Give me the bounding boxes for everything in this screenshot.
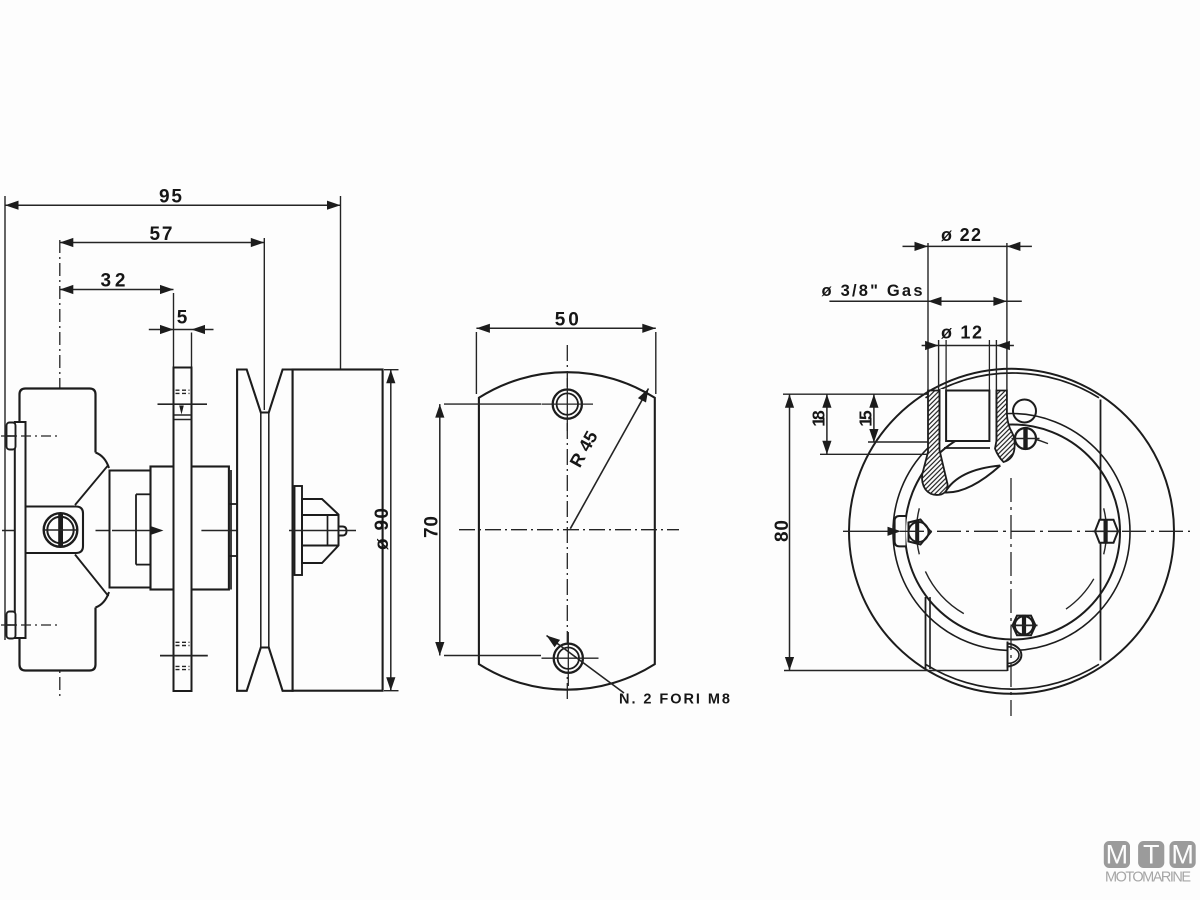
bearing housing right ring [230,470,232,590]
cover screw tick [44,529,77,531]
dimension 95 extension line right [340,196,342,531]
cone silhouette lower [75,555,109,597]
dimension line 70 [439,404,441,655]
svg-text:M: M [1106,840,1129,870]
dimension line 57 [60,242,264,244]
svg-text:MOTOMARINE: MOTOMARINE [1105,870,1191,886]
flange break marks bottom2 [176,665,190,667]
port right wall [995,391,1015,463]
bolt circle segment bottom-right [1066,579,1094,609]
cone silhouette upper [75,465,109,505]
dimension line diameter 22 [903,245,1032,247]
flange crossing line bottom [160,655,208,657]
hole bottom crosshair [542,657,599,659]
centerline dash [176,530,182,532]
logo square 1 [1104,841,1130,868]
svg-text:57: 57 [150,224,173,245]
seal housing step [135,494,137,564]
svg-text:M: M [1171,840,1194,870]
plate top arc [926,373,1100,398]
body boss circle [893,414,1130,651]
cover screw slot [58,514,63,547]
svg-text:5: 5 [177,308,188,329]
svg-text:T: T [1143,840,1160,870]
cover screw bottom [1013,616,1036,636]
cover circle [905,425,1120,640]
mounting flange edge view [174,368,192,692]
dimension line 32 [60,289,174,291]
svg-text:18: 18 [808,410,828,427]
svg-text:95: 95 [159,187,182,208]
bearing housing cylinder [151,467,229,590]
back plate [15,422,26,638]
drain boss [1008,644,1022,667]
svg-text:ø 12: ø 12 [941,323,982,343]
right view horizontal centerline [843,530,897,532]
cover screw top [1015,428,1036,449]
screw boss [20,507,83,554]
logo square 3 [1170,841,1196,868]
flange break marks bottom1 [176,641,190,643]
port bore white [941,389,996,441]
extension line 15 [868,441,928,443]
bolt circle segment bottom-left [925,571,963,613]
cover screw left [909,520,931,545]
inlet passage lens [945,466,1000,493]
dimension 32-5 extension line [173,293,175,368]
dimension line diameter 90 [390,370,392,691]
mounting plate front view [479,372,655,689]
dimension 90 extension lines [384,369,399,371]
neck fillet lower [96,592,110,608]
dimension line diameter 12 [922,345,1014,347]
socket lower line [944,447,990,449]
thread label leader [829,300,1021,302]
flange break marks top [176,389,190,391]
dimension 12 extension lines [938,340,940,390]
bolt circle segment top [1003,436,1048,443]
leader N.2 FORI M8 [547,636,625,694]
plate vertical centerline [566,345,568,700]
nut centerline [289,530,356,532]
svg-text:80: 80 [772,520,793,542]
plate bottom extension line [784,670,1008,672]
back screw upper centerline [1,435,59,437]
svg-text:ø 22: ø 22 [941,225,981,245]
flange crossing line top [158,403,208,405]
dimension line 80 [789,394,791,670]
bolt circle segment right [1104,508,1107,554]
neck fillet upper [96,453,110,469]
dimension 70 extension lines [444,403,541,405]
washer [295,486,303,575]
plate left edge lines [925,597,927,669]
dimension line 18 [826,394,828,454]
svg-text:ø 3/8" Gas: ø 3/8" Gas [822,282,923,300]
upper body hole [1013,400,1036,423]
cover screw outer [44,513,78,547]
logo square 2 [1138,841,1164,868]
pump flange outer circle [849,369,1174,694]
svg-text:15: 15 [855,410,875,427]
pulley groove bottom lines [260,413,262,648]
dimension 5 extension line right [191,333,193,368]
bolt tip [339,527,347,536]
back screw lower [7,612,16,639]
dimension 22 extension lines [927,243,929,390]
socket square [946,391,989,442]
pump body centerline [59,240,61,700]
centerline arrow a [112,530,161,532]
pump body [20,389,96,671]
dimension 95 extension line left [4,196,6,640]
port top face extension line [783,393,928,395]
plate horizontal centerline [459,529,679,531]
svg-text:ø 90: ø 90 [372,508,393,550]
dimension line 15 [873,394,875,442]
back screw upper [7,423,16,450]
seal housing cylinder [110,471,151,588]
cover screw inner [47,517,73,543]
radius R45 leader [570,389,648,529]
hole M8 bottom [554,644,583,673]
back screw lower centerline [1,624,59,626]
dimension 57 extension line right [263,238,265,410]
cover tab left [895,516,906,546]
port left wall [922,391,948,495]
pulley drum [293,370,383,691]
svg-text:70: 70 [421,516,442,538]
shaft lines [229,503,237,505]
dimension line 95 [5,204,341,206]
bolt circle segment left [916,508,919,554]
extension line 18 [820,453,928,455]
hole M8 top [553,390,582,419]
pump horizontal centerline [2,530,113,532]
flange tiny arrow [179,406,184,415]
cover screw right [1095,520,1118,543]
dimension line 5 [149,329,214,331]
dimension 50 extension lines [475,332,477,394]
port bore lines [939,391,941,442]
centerline segment b [201,530,247,532]
plate right edge line [1100,400,1102,661]
pulley [237,370,293,691]
plate bottom arc [926,664,1100,689]
shaft nut [302,499,339,563]
right view vertical centerline [1010,478,1012,716]
hole top crosshair [542,403,594,405]
dimension line 50 [476,327,655,329]
